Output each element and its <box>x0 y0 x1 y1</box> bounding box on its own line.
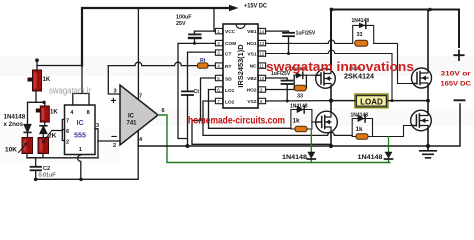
battery minus symbol <box>455 99 465 101</box>
node cap2 VS2 <box>286 100 289 103</box>
+15V arrow head <box>229 5 239 12</box>
svg-text:2K: 2K <box>48 133 57 140</box>
pin box 3 CT <box>215 50 222 55</box>
svg-text:14: 14 <box>259 29 264 34</box>
resistor R1 1K top leads <box>36 60 38 70</box>
pin box 2 COM <box>215 40 222 45</box>
capacitor C2 0.01uF <box>31 166 42 168</box>
svg-text:1N4148: 1N4148 <box>282 154 307 161</box>
resistor 33 M2 gate <box>355 40 368 46</box>
svg-text:1k: 1k <box>293 118 301 125</box>
svg-text:VS1: VS1 <box>247 52 256 58</box>
svg-text:10K: 10K <box>5 147 17 154</box>
svg-text:2: 2 <box>113 143 116 149</box>
wire tap to 741 pin2 <box>98 140 123 142</box>
ground symbol <box>420 146 437 158</box>
svg-text:1N4148: 1N4148 <box>4 114 26 121</box>
svg-text:5: 5 <box>217 76 220 81</box>
node 555 pin1 at ground bus <box>79 178 83 182</box>
wire R1 bottom to junction <box>35 91 37 102</box>
wire R1 node to 555 Vcc riser <box>37 65 82 67</box>
svg-text:1: 1 <box>79 147 82 153</box>
svg-text:3: 3 <box>96 123 99 129</box>
svg-text:555: 555 <box>74 131 86 140</box>
mosfet M4 2SK4124 <box>411 110 432 131</box>
pin box 6 LO1 <box>215 87 222 92</box>
svg-text:1N4148: 1N4148 <box>358 154 383 161</box>
svg-text:+: + <box>111 96 117 107</box>
resistor R2 1K leads <box>44 102 46 106</box>
svg-text:1uF/25V: 1uF/25V <box>296 31 316 37</box>
mosfet M2 2SK4124 <box>412 68 432 88</box>
wire COM pin2 down to ground bus <box>178 43 215 138</box>
svg-text:homemade-circuits.com: homemade-circuits.com <box>188 115 285 127</box>
svg-text:100uF: 100uF <box>176 15 192 21</box>
svg-text:8: 8 <box>87 110 90 116</box>
wire junction branch to D1 and R2 <box>28 101 45 103</box>
diode 1N4148 M4 gate network <box>352 119 372 137</box>
op-amp IC741 triangle <box>120 85 158 145</box>
diode D2 1N4148 (pointing up) <box>40 125 47 127</box>
battery plus symbol <box>454 51 463 61</box>
wire D1 to preset P1 <box>27 132 29 137</box>
svg-text:IC: IC <box>77 118 84 127</box>
svg-text:SD: SD <box>225 77 232 83</box>
pin box 8 VS2 <box>258 98 265 103</box>
node 100uF on COM <box>193 42 196 45</box>
pin box 4 RT <box>215 63 222 68</box>
svg-text:LOAD: LOAD <box>360 98 383 107</box>
pin box 7 LO2 <box>215 98 222 103</box>
wire load left <box>331 100 355 102</box>
wire network to M3 gate <box>312 121 317 123</box>
diode 1N4148 clamp left (gate to green SD line) <box>310 129 312 163</box>
wire right leg M2 source to M4 drain <box>427 86 429 113</box>
wire VCC pin1 riser to +15V rail <box>214 8 215 31</box>
svg-text:Ct: Ct <box>194 89 200 95</box>
preset P1 10K body <box>22 138 33 154</box>
wire 741 pin3 feedback from RT node <box>108 66 120 94</box>
resistor 1k M4 gate <box>356 134 368 140</box>
wire HV positive rail <box>331 10 459 69</box>
wire green 741 output to SD bus <box>158 115 390 163</box>
mosfet M3 2SK4124 <box>316 111 338 133</box>
svg-text:6: 6 <box>217 87 220 92</box>
wire load right <box>388 100 428 102</box>
diode 1N4148 M2 gate (parallel) <box>353 25 374 43</box>
node C2 ground <box>34 178 38 182</box>
wire HO1 pin13 to gate network with hop <box>266 40 353 43</box>
resistor R1 1K body <box>33 70 42 91</box>
IC notch <box>236 24 245 29</box>
wire 33 to M2 gate <box>374 43 414 83</box>
svg-text:1K: 1K <box>50 110 58 116</box>
svg-text:–: – <box>111 131 117 143</box>
resistor R2 1K body <box>40 106 49 122</box>
node ground bus CT <box>186 144 190 148</box>
svg-text:3: 3 <box>217 51 220 56</box>
svg-text:6: 6 <box>162 108 165 114</box>
wire HO2 pin9 to M1 gate network <box>266 88 295 90</box>
resistor R2 designator mark <box>36 109 41 113</box>
wire 555 Vcc riser and pins 4,8 bridge <box>73 66 89 106</box>
resistor Rt body <box>198 63 209 68</box>
node right leg ground <box>426 144 430 148</box>
svg-text:VS2: VS2 <box>247 99 256 105</box>
wire M3 source to ground bus <box>330 131 332 147</box>
svg-text:IRS2453(1)D: IRS2453(1)D <box>236 44 245 88</box>
svg-text:COM: COM <box>225 41 236 47</box>
wire network to M1 gate <box>306 74 315 76</box>
svg-text:x 2nos: x 2nos <box>4 121 24 128</box>
diode 1N4148 M3 gate network <box>291 110 312 130</box>
resistor 1k M3 gate <box>295 126 307 132</box>
pin box 10 VB2 <box>258 75 265 80</box>
pin box 13 HO1 <box>258 40 265 45</box>
svg-text:12: 12 <box>259 52 264 57</box>
node VS1 load junction <box>391 99 394 102</box>
preset P2 2K body <box>38 138 49 154</box>
wire +15V top rail <box>82 8 230 66</box>
node R1 top junction <box>35 58 39 62</box>
node load right junction <box>426 99 430 103</box>
mosfet M1 2SK4124 <box>316 69 336 89</box>
wire R2 bottom to D2 <box>43 122 45 138</box>
resistor R1 designator mark <box>28 78 33 82</box>
wire VS2 pin8 to load junction <box>266 100 331 102</box>
capacitor 1uF/25V bootstrap 1 <box>283 32 294 34</box>
main ground bus <box>138 145 428 147</box>
wire Rt to pin4 RT <box>208 65 215 67</box>
wire SD pin5 down and right to clamp line <box>192 78 331 146</box>
wire negative terminal <box>428 104 460 146</box>
wire cap2 bottom to VS2 <box>286 84 288 101</box>
wire M2 drain from rail <box>427 10 429 71</box>
svg-text:VB2: VB2 <box>247 76 257 82</box>
wire pin1 horizontal <box>195 30 216 32</box>
capacitor 100uF 25V <box>189 33 201 35</box>
svg-text:13: 13 <box>259 41 264 46</box>
svg-text:1: 1 <box>217 29 220 34</box>
svg-text:7: 7 <box>139 94 142 100</box>
node HV rail left corner <box>330 8 334 12</box>
wire preset bottoms to common <box>27 154 43 158</box>
svg-text:1K: 1K <box>43 77 51 83</box>
wire 555 pin6 stub <box>52 130 65 131</box>
preset P1 wiper arrow <box>19 144 27 153</box>
node load left junction <box>329 99 333 103</box>
svg-text:HO1: HO1 <box>247 41 257 47</box>
pin box 12 VS1 <box>258 51 265 56</box>
pin box 5 SD <box>215 75 222 80</box>
svg-text:10: 10 <box>259 76 264 81</box>
svg-text:LO1: LO1 <box>225 88 235 94</box>
LOAD box <box>355 94 388 108</box>
wire 555 pin3 output to 741 inverting node <box>95 129 98 158</box>
svg-text:165V DC: 165V DC <box>441 81 472 88</box>
svg-text:1N4148: 1N4148 <box>351 113 369 119</box>
svg-text:swagatam ir: swagatam ir <box>49 86 91 97</box>
wire LO1 pin6 down and right <box>209 90 291 129</box>
svg-text:741: 741 <box>127 121 138 127</box>
wire common node to 555 column <box>27 157 98 159</box>
pin box 9 HO2 <box>258 87 265 92</box>
IC IRS2453 body <box>223 24 258 108</box>
svg-text:IC: IC <box>128 114 135 120</box>
wire VB2 pin10 to bootstrap cap2 <box>266 78 288 80</box>
IC 555 body <box>65 105 96 155</box>
svg-text:C2: C2 <box>43 166 50 172</box>
svg-text:CT: CT <box>225 51 231 57</box>
wire RT line with hops to Rt resistor <box>108 62 197 65</box>
svg-text:+15V DC: +15V DC <box>244 4 268 10</box>
diode 1N4148 M1 gate <box>296 72 303 79</box>
diode D1 1N4148 (pointing down) <box>24 125 31 132</box>
svg-text:310V or: 310V or <box>441 71 472 78</box>
svg-text:25V: 25V <box>176 21 186 27</box>
svg-text:7: 7 <box>217 99 220 104</box>
pin box 11 NC <box>258 63 265 68</box>
wire CT pin3 to Ct cap <box>188 52 216 91</box>
svg-text:33: 33 <box>357 32 363 38</box>
svg-text:2: 2 <box>217 41 220 46</box>
wire VS1 pin12 with hop to right leg <box>266 50 392 100</box>
wire D1 top lead <box>27 102 29 124</box>
M1 gate network loop <box>294 75 306 88</box>
node cap1 VS1 <box>287 52 290 55</box>
wire 741 pin4 to ground bus <box>137 131 139 146</box>
capacitor Ct <box>182 90 193 92</box>
pin box 14 VB1 <box>258 28 265 33</box>
wire 100uF bottom to COM wire <box>194 38 196 43</box>
pin box 1 VCC <box>215 28 222 33</box>
wire 100uF top lead <box>194 31 196 34</box>
svg-text:NC: NC <box>250 64 257 70</box>
svg-text:VCC: VCC <box>225 29 236 35</box>
wire 555 pin1 with hop over common wire <box>78 155 81 180</box>
preset P2 wiper arrow to 555 <box>44 131 52 141</box>
resistor 33 M1 gate <box>295 85 307 91</box>
svg-text:VB1: VB1 <box>247 29 257 35</box>
wire C2 bottom to ground bus <box>35 170 37 179</box>
wire M4 source to ground bus <box>427 128 429 146</box>
node junction R1/R2/D1 <box>42 101 45 104</box>
svg-text:RT: RT <box>225 64 231 70</box>
svg-text:33: 33 <box>297 94 303 100</box>
svg-text:1N4148: 1N4148 <box>290 104 308 110</box>
svg-text:4: 4 <box>217 64 220 69</box>
diode 1N4148 clamp right <box>388 137 390 163</box>
node HV rail to M2 drain <box>428 8 432 12</box>
svg-text:1k: 1k <box>356 126 364 133</box>
wire Ct bottom to ground bus <box>187 95 189 146</box>
wire LO2 pin7 down and right with hop over left leg <box>203 101 352 135</box>
wire 555 pin7 stub <box>62 120 64 141</box>
svg-text:7: 7 <box>66 119 69 125</box>
wire C2 top lead <box>35 158 37 167</box>
svg-text:HO2: HO2 <box>247 88 257 94</box>
wire network to M4 gate <box>373 126 413 137</box>
svg-text:11: 11 <box>259 64 264 69</box>
svg-text:0.01uF: 0.01uF <box>39 173 57 179</box>
node M3 source ground <box>329 144 333 148</box>
wire left leg M1 source to load <box>330 85 332 113</box>
svg-text:6: 6 <box>66 129 69 135</box>
svg-text:Rt: Rt <box>200 58 206 64</box>
wire 741 pin7 supply from top rail <box>137 8 139 99</box>
wire cap1 bottom to VS1 <box>288 36 290 53</box>
wire left ground bus <box>36 131 139 180</box>
svg-text:LO2: LO2 <box>225 100 235 106</box>
svg-text:1N4148: 1N4148 <box>352 18 370 24</box>
svg-text:2: 2 <box>66 140 69 146</box>
svg-text:swagatam innovations: swagatam innovations <box>266 59 414 74</box>
capacitor 1uF/25V bootstrap 2 <box>282 80 293 82</box>
wire VB1 pin14 to bootstrap cap1 <box>266 31 289 32</box>
